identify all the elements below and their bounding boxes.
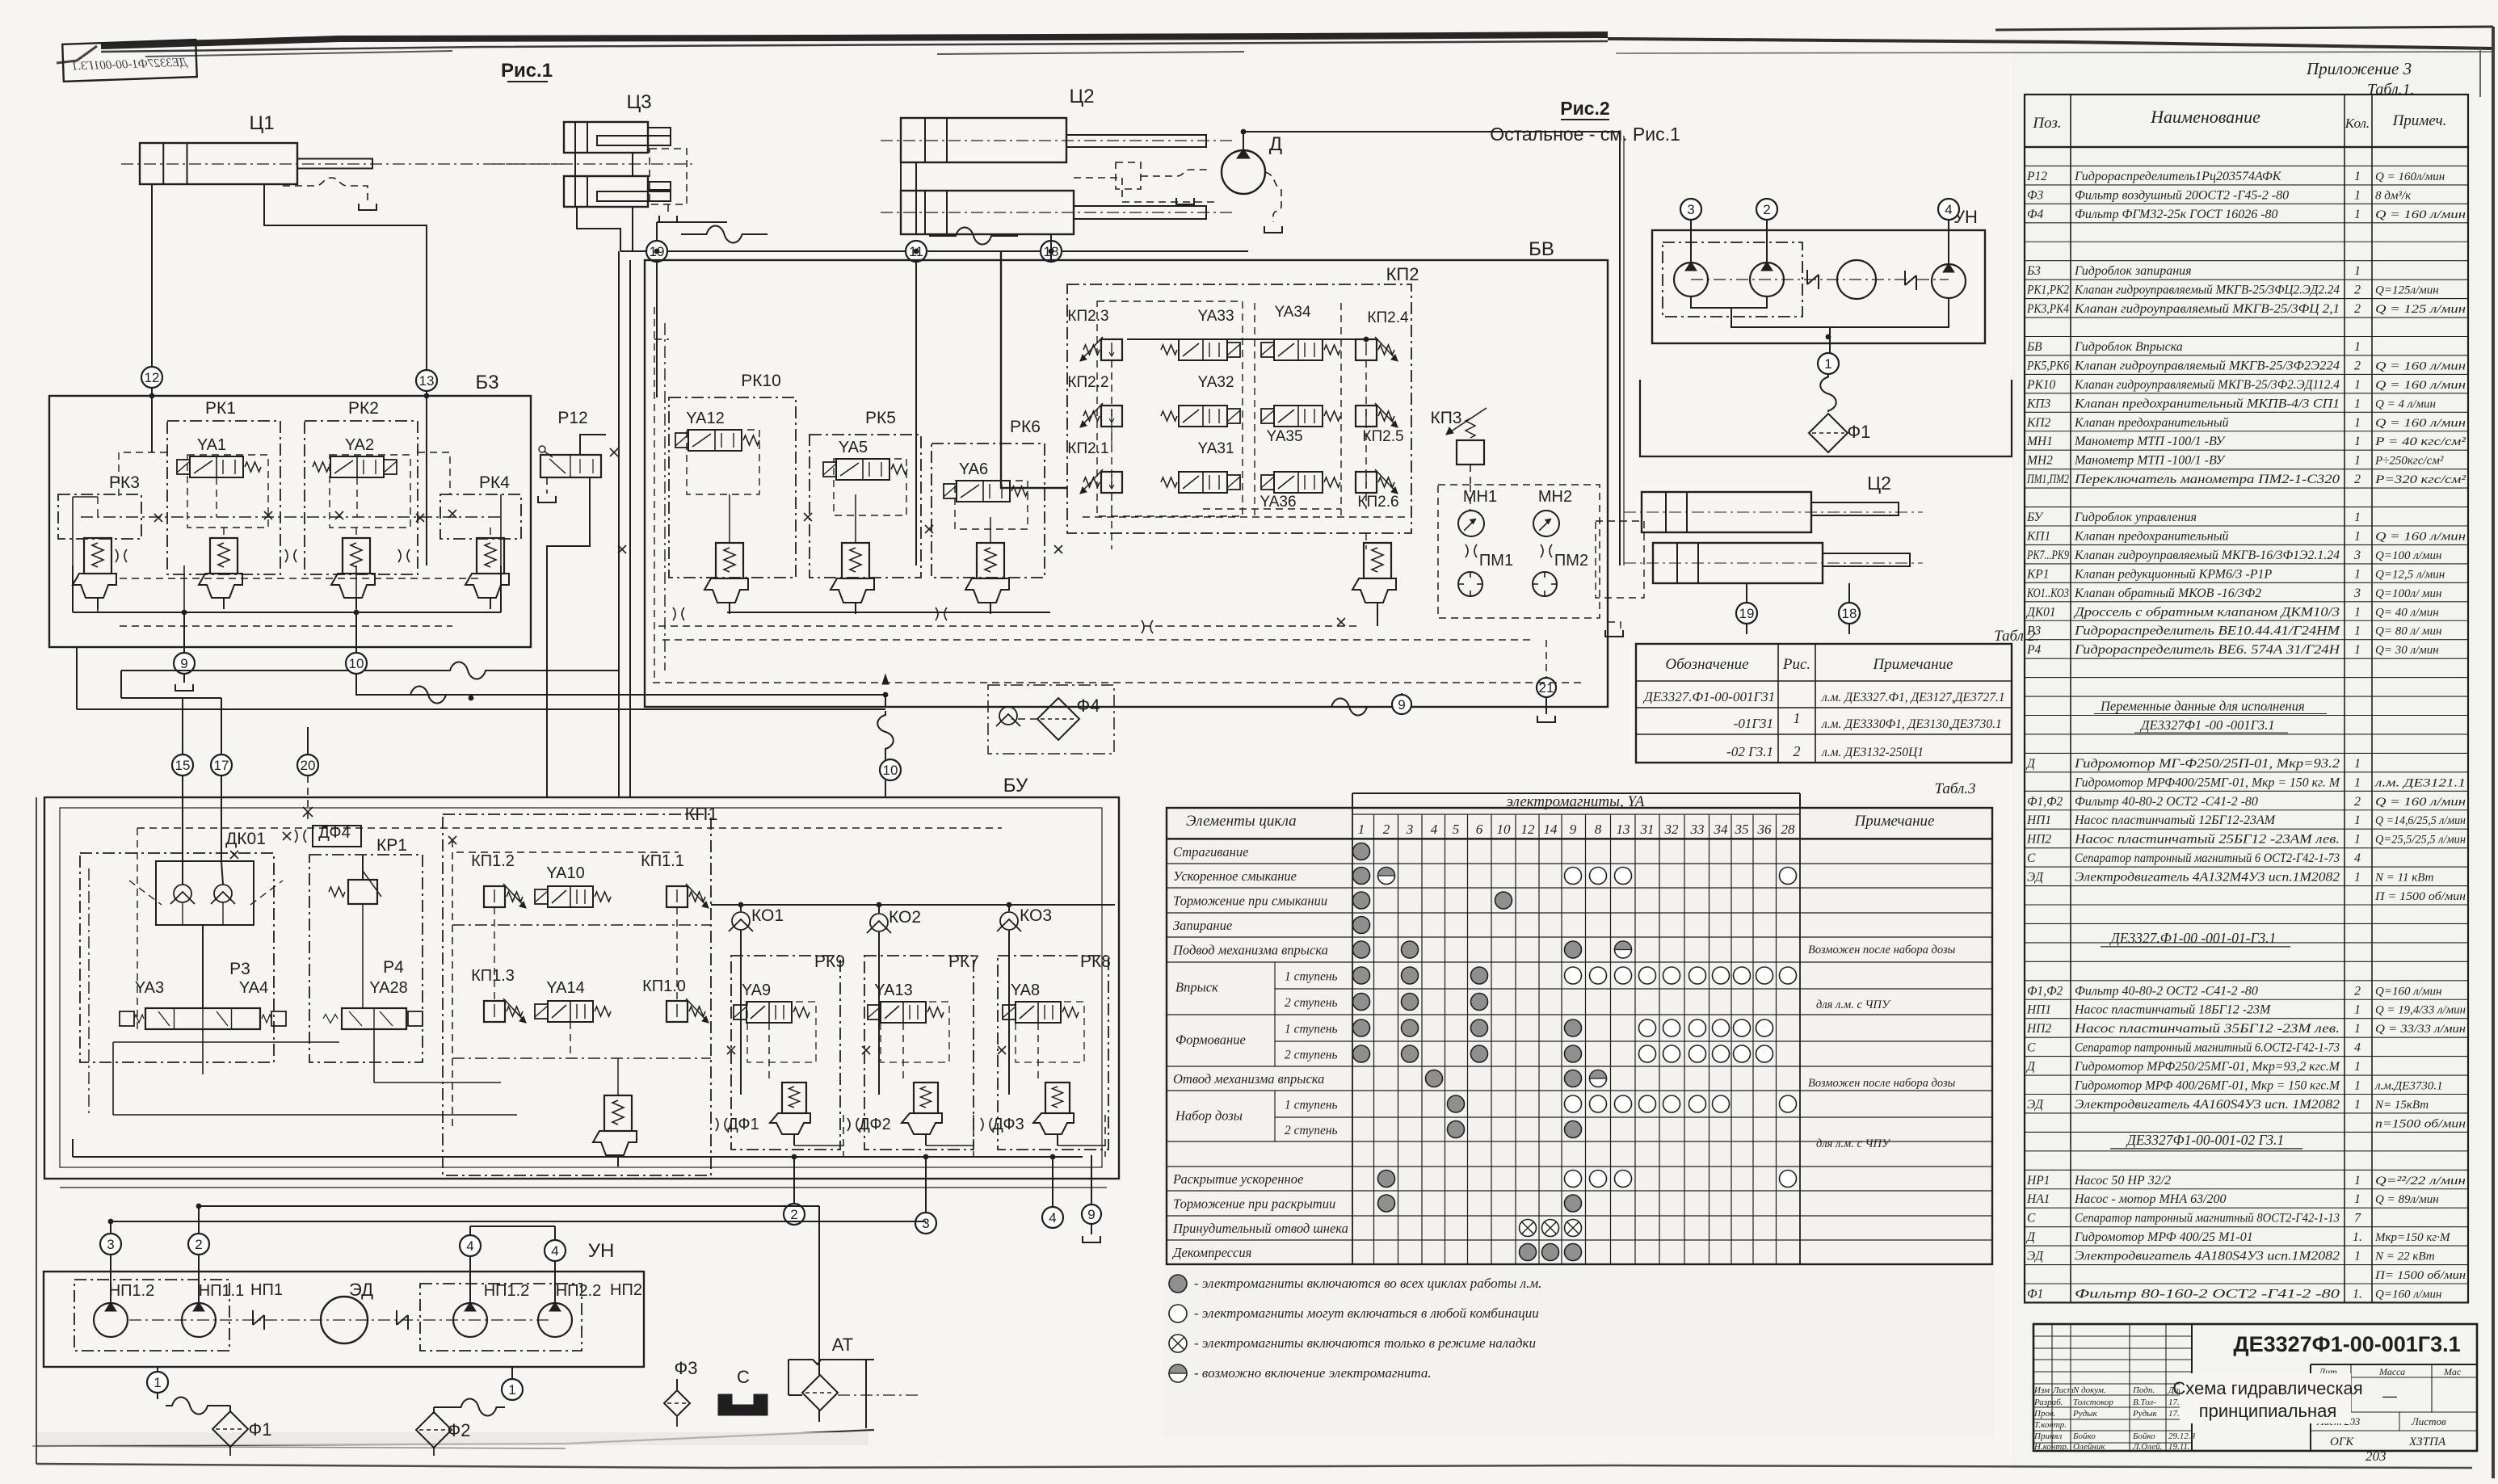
svg-text:1: 1 <box>1824 356 1831 372</box>
svg-text:Возможен после набора дозы: Возможен после набора дозы <box>1808 944 1956 956</box>
svg-text:4: 4 <box>551 1243 558 1259</box>
svg-text:YA36: YA36 <box>1260 494 1296 511</box>
svg-text:ДФ2: ДФ2 <box>859 1116 890 1133</box>
svg-text:13: 13 <box>1617 822 1630 837</box>
svg-text:Листов: Листов <box>2411 1415 2446 1427</box>
svg-text:YA1: YA1 <box>197 436 226 454</box>
svg-text:2: 2 <box>2354 284 2361 297</box>
svg-text:ХЗТПА: ХЗТПА <box>2408 1436 2446 1448</box>
svg-text:2: 2 <box>2354 359 2361 372</box>
svg-text:Клапан обратный МКОВ -16/3Ф2: Клапан обратный МКОВ -16/3Ф2 <box>2074 586 2261 600</box>
svg-text:1: 1 <box>2354 813 2361 827</box>
svg-text:ОГК: ОГК <box>2330 1436 2354 1448</box>
svg-text:Мкр=150 кг·М: Мкр=150 кг·М <box>2374 1231 2451 1244</box>
svg-text:Принудительный отвод шнека: Принудительный отвод шнека <box>1172 1221 1348 1236</box>
svg-text:ДФ3: ДФ3 <box>992 1116 1024 1133</box>
svg-text:РК5,РК6: РК5,РК6 <box>2026 359 2069 372</box>
svg-text:YA31: YA31 <box>1197 440 1234 457</box>
svg-text:л.м. ДЕ3132-250Ц1: л.м. ДЕ3132-250Ц1 <box>1821 746 1924 759</box>
svg-text:1: 1 <box>2354 776 2361 789</box>
svg-text:2: 2 <box>1383 822 1390 837</box>
svg-text:Q = 160 л/мин: Q = 160 л/мин <box>2375 530 2466 543</box>
svg-text:36: 36 <box>1757 822 1773 837</box>
svg-text:Q = 4 л/мин: Q = 4 л/мин <box>2375 397 2436 410</box>
svg-text:YA28: YA28 <box>369 979 407 997</box>
svg-text:18: 18 <box>1842 606 1857 621</box>
svg-text:В.Тол-: В.Тол- <box>2133 1398 2156 1407</box>
svg-text:КО1: КО1 <box>751 906 784 925</box>
svg-text:Насос - мотор МНА 63/200: Насос - мотор МНА 63/200 <box>2074 1192 2227 1206</box>
svg-text:2 ступень: 2 ступень <box>1285 1124 1338 1137</box>
svg-text:Ф1: Ф1 <box>2027 1287 2043 1301</box>
svg-text:П= 1500 об/мин: П= 1500 об/мин <box>2374 1269 2466 1282</box>
svg-text:Р12: Р12 <box>557 409 587 427</box>
svg-text:- электромагниты включаются: - электромагниты включаются во всех цикл… <box>1194 1276 1541 1291</box>
svg-text:Насос 50 НР 32/2: Насос 50 НР 32/2 <box>2074 1174 2171 1188</box>
svg-text:ДЕ3327.Ф1-00-001Г31: ДЕ3327.Ф1-00-001Г31 <box>1642 689 1775 704</box>
svg-text:203: 203 <box>2366 1448 2387 1464</box>
svg-text:- электромагниты включаются: - электромагниты включаются только в реж… <box>1194 1335 1536 1351</box>
svg-text:Q = 89л/мин: Q = 89л/мин <box>2375 1193 2439 1206</box>
svg-text:КО2: КО2 <box>889 908 921 927</box>
svg-text:Q = 19,4/33 л/мин: Q = 19,4/33 л/мин <box>2375 1004 2466 1017</box>
svg-text:Фильтр ФГМ32-25к ГОСТ 16026 -8: Фильтр ФГМ32-25к ГОСТ 16026 -80 <box>2075 208 2278 221</box>
svg-text:Переключатель манометра ПМ2-: Переключатель манометра ПМ2-1-С320 <box>2074 473 2340 486</box>
svg-text:Мас: Мас <box>2443 1366 2462 1377</box>
svg-text:Ф1,Ф2: Ф1,Ф2 <box>2027 795 2063 809</box>
svg-text:МН1: МН1 <box>2026 435 2053 448</box>
svg-text:1: 1 <box>2354 757 2361 771</box>
svg-text:12: 12 <box>1521 822 1536 837</box>
svg-text:Q = 33/33 л/мин: Q = 33/33 л/мин <box>2375 1023 2466 1036</box>
svg-text:ЭД: ЭД <box>2027 1250 2044 1263</box>
svg-text:С: С <box>2027 851 2036 865</box>
svg-text:1: 1 <box>2354 529 2361 543</box>
svg-text:7: 7 <box>2354 1212 2361 1225</box>
svg-text:Фильтр 40-80-2 ОСТ2 -С41-2 -8: Фильтр 40-80-2 ОСТ2 -С41-2 -80 <box>2075 795 2258 809</box>
svg-text:КП1: КП1 <box>2026 529 2050 543</box>
svg-text:Ф4: Ф4 <box>2027 208 2043 221</box>
svg-text:Д: Д <box>2025 1060 2036 1074</box>
svg-text:НП2: НП2 <box>2026 1022 2051 1036</box>
svg-text:Q=125л/мин: Q=125л/мин <box>2375 284 2439 297</box>
svg-text:Наименование: Наименование <box>2150 107 2260 127</box>
svg-text:1: 1 <box>2354 871 2361 885</box>
svg-text:Р4: Р4 <box>2026 643 2041 657</box>
svg-text:НП1: НП1 <box>250 1281 283 1299</box>
svg-text:1: 1 <box>2354 1174 2361 1188</box>
svg-text:КП1.3: КП1.3 <box>471 967 515 985</box>
svg-text:YA33: YA33 <box>1197 308 1234 325</box>
svg-text:9: 9 <box>1398 697 1405 713</box>
svg-text:Н.контр.: Н.контр. <box>2033 1442 2069 1452</box>
svg-text:YA3: YA3 <box>135 979 164 997</box>
svg-text:N= 15кВт: N= 15кВт <box>2374 1099 2429 1112</box>
svg-text:Гидрораспределитель1Рц203574АФ: Гидрораспределитель1Рц203574АФК <box>2074 170 2282 183</box>
svg-text:Q =14,6/25,5 л/мин: Q =14,6/25,5 л/мин <box>2375 814 2466 827</box>
svg-text:1: 1 <box>2354 567 2361 581</box>
svg-text:Переменные данные для испо: Переменные данные для исполнения <box>2100 699 2305 714</box>
svg-text:Насос пластинчатый 18БГ12 -: Насос пластинчатый 18БГ12 -23М <box>2074 1003 2272 1017</box>
svg-text:Гидроблок запирания: Гидроблок запирания <box>2074 264 2192 278</box>
svg-text:Декомпрессия: Декомпрессия <box>1171 1245 1251 1260</box>
svg-text:Толстокор: Толстокор <box>2073 1398 2113 1407</box>
svg-text:КО1..КО3: КО1..КО3 <box>2026 586 2069 600</box>
svg-text:Фильтр 40-80-2 ОСТ2 -С41-2: Фильтр 40-80-2 ОСТ2 -С41-2 -80 <box>2075 984 2258 998</box>
svg-text:Р3: Р3 <box>2026 624 2041 638</box>
svg-text:электромагниты, YA: электромагниты, YA <box>1507 793 1645 810</box>
svg-text:4: 4 <box>1431 822 1438 837</box>
svg-text:1: 1 <box>2354 416 2361 430</box>
svg-text:Клапан гидроуправляемый МКГВ-2: Клапан гидроуправляемый МКГВ-25/3Ф2.ЭД11… <box>2074 378 2340 392</box>
svg-text:Ускоренное смыкание: Ускоренное смыкание <box>1173 868 1297 884</box>
svg-text:КП2.1: КП2.1 <box>1067 440 1108 457</box>
svg-text:Клапан предохранительный: Клапан предохранительный <box>2074 529 2229 543</box>
svg-text:Гидроблок Впрыска: Гидроблок Впрыска <box>2074 340 2183 354</box>
svg-text:Л.Олей.: Л.Олей. <box>2132 1442 2162 1452</box>
svg-text:принципиальная: принципиальная <box>2199 1401 2337 1421</box>
svg-text:1: 1 <box>2354 511 2361 524</box>
svg-text:КП2: КП2 <box>1386 264 1419 284</box>
svg-text:Ф2: Ф2 <box>448 1420 471 1440</box>
svg-text:Клапан предохранительный МКПВ: Клапан предохранительный МКПВ-4/3 СП1 <box>2074 397 2340 410</box>
svg-text:РК1: РК1 <box>205 399 236 418</box>
svg-text:Ф3: Ф3 <box>675 1358 698 1378</box>
svg-text:-01Г31: -01Г31 <box>1734 716 1773 731</box>
svg-text:Q = 160 л/мин: Q = 160 л/мин <box>2375 208 2466 221</box>
svg-text:- возможно включение: - возможно включение электромагнита. <box>1194 1365 1432 1381</box>
svg-text:P = 40 кгс/см²: P = 40 кгс/см² <box>2374 435 2466 448</box>
svg-text:Ц1: Ц1 <box>249 112 274 134</box>
svg-text:Примеч.: Примеч. <box>2392 112 2447 129</box>
svg-text:Клапан гидроуправляемый МКГВ-2: Клапан гидроуправляемый МКГВ-25/3ФЦ 2,1 <box>2074 302 2340 316</box>
svg-text:Кол.: Кол. <box>2345 116 2370 131</box>
svg-text:ДЕ3327Ф1-00-001-02 Г3.1: ДЕ3327Ф1-00-001-02 Г3.1 <box>2126 1132 2285 1148</box>
svg-text:Ц3: Ц3 <box>626 91 651 113</box>
svg-text:YA12: YA12 <box>686 410 724 427</box>
svg-text:Отвод механизма впрыска: Отвод механизма впрыска <box>1173 1071 1324 1087</box>
svg-text:34: 34 <box>1714 822 1729 837</box>
svg-text:9: 9 <box>1570 822 1577 837</box>
svg-text:Б3: Б3 <box>475 372 498 393</box>
svg-text:Q = 160л/мин: Q = 160л/мин <box>2375 170 2445 183</box>
svg-text:1: 1 <box>2354 605 2361 619</box>
svg-text:YA9: YA9 <box>742 982 771 999</box>
svg-text:Q = 160 л/мин: Q = 160 л/мин <box>2375 796 2466 809</box>
svg-text:Р12: Р12 <box>2026 170 2047 183</box>
svg-text:15: 15 <box>175 758 191 773</box>
svg-text:- электромагниты могут вкл: - электромагниты могут включаться в любо… <box>1194 1305 1539 1321</box>
svg-text:Сепаратор патронный магнитный: Сепаратор патронный магнитный 8ОСТ2-Г42-… <box>2075 1212 2340 1225</box>
svg-text:Схема гидравлическая: Схема гидравлическая <box>2172 1378 2362 1398</box>
svg-text:YA14: YA14 <box>546 979 584 997</box>
svg-text:НП1.2: НП1.2 <box>484 1282 530 1300</box>
svg-text:КР1: КР1 <box>376 836 407 855</box>
svg-text:YA10: YA10 <box>546 864 584 882</box>
svg-text:Впрыск: Впрыск <box>1175 980 1218 995</box>
svg-text:АТ: АТ <box>832 1335 853 1355</box>
svg-text:Ф1,Ф2: Ф1,Ф2 <box>2027 984 2063 998</box>
svg-text:Q= 80 л/ мин: Q= 80 л/ мин <box>2375 625 2441 638</box>
svg-text:С: С <box>2027 1212 2036 1225</box>
svg-text:УН: УН <box>588 1240 615 1262</box>
svg-text:Гидромотор МРФ 400/26МГ-01, М: Гидромотор МРФ 400/26МГ-01, Мкр = 150 кг… <box>2074 1079 2341 1093</box>
svg-text:10: 10 <box>883 763 898 778</box>
svg-text:2: 2 <box>2354 302 2361 316</box>
svg-text:БВ: БВ <box>1529 238 1554 260</box>
svg-text:Р3: Р3 <box>229 960 250 978</box>
svg-text:1: 1 <box>2354 1022 2361 1036</box>
svg-text:8 дм³/к: 8 дм³/к <box>2375 189 2412 202</box>
svg-text:БУ: БУ <box>1003 775 1028 797</box>
svg-text:Насос пластинчатый 35БГ12 -: Насос пластинчатый 35БГ12 -23М лев. <box>2074 1022 2340 1036</box>
svg-text:л.м. ДЕ3121.1: л.м. ДЕ3121.1 <box>2374 776 2466 789</box>
svg-text:Фильтр воздушный 20ОСТ2 -Г45-2: Фильтр воздушный 20ОСТ2 -Г45-2 -80 <box>2075 188 2289 202</box>
svg-text:Масса: Масса <box>2378 1366 2405 1377</box>
svg-text:КП1.0: КП1.0 <box>642 977 686 995</box>
svg-text:1: 1 <box>2354 454 2361 468</box>
svg-text:КП3: КП3 <box>1430 409 1461 427</box>
svg-text:3: 3 <box>107 1237 114 1252</box>
svg-text:Q = 125 л/мин: Q = 125 л/мин <box>2375 303 2466 316</box>
svg-text:Q= 40 л/мин: Q= 40 л/мин <box>2375 606 2439 619</box>
svg-text:32: 32 <box>1664 822 1680 837</box>
svg-text:1: 1 <box>2354 188 2361 202</box>
svg-text:Д: Д <box>1269 133 1282 155</box>
svg-text:НП2.2: НП2.2 <box>556 1282 602 1300</box>
svg-text:Манометр МТП -100/1 -ВУ: Манометр МТП -100/1 -ВУ <box>2074 435 2226 448</box>
svg-text:4: 4 <box>466 1238 473 1254</box>
svg-text:9: 9 <box>180 656 187 671</box>
svg-text:С: С <box>2027 1041 2036 1055</box>
svg-text:19: 19 <box>1739 606 1755 621</box>
svg-text:YA6: YA6 <box>959 460 988 478</box>
svg-text:Q=²²/22 л/мин: Q=²²/22 л/мин <box>2375 1175 2466 1188</box>
svg-text:л.м.ДЕ3730.1: л.м.ДЕ3730.1 <box>2374 1080 2443 1093</box>
svg-text:29.12.8: 29.12.8 <box>2168 1431 2196 1441</box>
svg-text:Ф1: Ф1 <box>1848 422 1871 442</box>
svg-text:РК7...РК9: РК7...РК9 <box>2026 549 2069 562</box>
svg-text:N докум.: N докум. <box>2072 1385 2106 1395</box>
svg-text:2 ступень: 2 ступень <box>1285 1049 1338 1062</box>
svg-text:Гидрораспределитель ВЕ6. 574А: Гидрораспределитель ВЕ6. 574А 31/Г24Н <box>2074 643 2341 657</box>
svg-text:РК2: РК2 <box>348 399 379 418</box>
svg-text:1: 1 <box>2354 624 2361 638</box>
svg-text:Сепаратор патронный магнитный: Сепаратор патронный магнитный 6 ОСТ2-Г42… <box>2075 851 2340 865</box>
svg-text:28: 28 <box>1781 822 1796 837</box>
svg-text:1 ступень: 1 ступень <box>1285 970 1338 984</box>
svg-text:1: 1 <box>153 1375 161 1390</box>
svg-text:1: 1 <box>2354 264 2361 278</box>
svg-text:P÷250кгс/см²: P÷250кгс/см² <box>2374 455 2444 468</box>
svg-text:YA35: YA35 <box>1266 428 1302 445</box>
svg-text:Р4: Р4 <box>383 958 404 977</box>
svg-text:Обозначение: Обозначение <box>1665 656 1748 673</box>
svg-text:Гидромотор МРФ 400/25 М1-01: Гидромотор МРФ 400/25 М1-01 <box>2074 1230 2253 1244</box>
svg-text:НП2: НП2 <box>2026 833 2051 847</box>
svg-text:Клапан предохранительный: Клапан предохранительный <box>2074 416 2229 430</box>
svg-text:Манометр МТП -100/1 -ВУ: Манометр МТП -100/1 -ВУ <box>2074 454 2226 468</box>
svg-text:Сепаратор патронный магнитный: Сепаратор патронный магнитный 6.ОСТ2-Г42… <box>2075 1041 2340 1055</box>
svg-text:1 ступень: 1 ступень <box>1285 1023 1338 1036</box>
svg-text:2: 2 <box>2354 984 2361 998</box>
svg-text:1.: 1. <box>2353 1230 2362 1244</box>
svg-text:Насос пластинчатый 12БГ12-23А: Насос пластинчатый 12БГ12-23АМ <box>2074 813 2277 827</box>
svg-text:Гидромотор МРФ400/25МГ-01, Мкр: Гидромотор МРФ400/25МГ-01, Мкр = 150 кг.… <box>2074 776 2341 789</box>
svg-text:YA5: YA5 <box>839 439 868 456</box>
svg-text:1: 1 <box>2354 397 2361 410</box>
svg-text:Q=100л/ мин: Q=100л/ мин <box>2375 587 2441 600</box>
svg-text:КП2.5: КП2.5 <box>1362 428 1403 445</box>
svg-text:ПМ1,ПМ2: ПМ1,ПМ2 <box>2026 473 2069 486</box>
svg-text:НП1: НП1 <box>2026 813 2051 827</box>
svg-text:Торможение при смыкании: Торможение при смыкании <box>1173 893 1327 909</box>
svg-text:НП1.1: НП1.1 <box>199 1282 245 1300</box>
svg-text:РК10: РК10 <box>741 372 781 390</box>
svg-text:31: 31 <box>1640 822 1655 837</box>
svg-text:Запирание: Запирание <box>1173 918 1232 933</box>
svg-text:1: 1 <box>2354 1079 2361 1093</box>
svg-text:1: 1 <box>2354 208 2361 221</box>
svg-text:Примечание: Примечание <box>1873 656 1953 673</box>
svg-text:3: 3 <box>1687 202 1694 217</box>
svg-text:КП1.2: КП1.2 <box>471 852 515 870</box>
svg-text:Клапан гидроуправляемый МКГВ-1: Клапан гидроуправляемый МКГВ-16/3Ф1Э2.1.… <box>2074 549 2340 562</box>
svg-text:Q=160 л/мин: Q=160 л/мин <box>2375 985 2441 998</box>
svg-text:КП2.3: КП2.3 <box>1067 308 1108 325</box>
svg-text:Разраб.: Разраб. <box>2033 1398 2063 1407</box>
svg-text:YA32: YA32 <box>1197 374 1234 391</box>
svg-text:4: 4 <box>2354 1041 2361 1055</box>
svg-text:12: 12 <box>145 370 160 385</box>
svg-text:Раскрытие ускоренное: Раскрытие ускоренное <box>1172 1171 1303 1187</box>
svg-text:КП3: КП3 <box>2026 397 2050 410</box>
svg-text:2: 2 <box>2354 795 2361 809</box>
svg-text:Б3: Б3 <box>2026 264 2041 278</box>
svg-text:Ц2: Ц2 <box>1867 473 1891 494</box>
svg-text:п=1500 об/мин: п=1500 об/мин <box>2375 1117 2466 1130</box>
svg-text:ПМ2: ПМ2 <box>1554 552 1588 570</box>
svg-text:1: 1 <box>1358 822 1365 837</box>
svg-text:КП2.4: КП2.4 <box>1367 309 1409 326</box>
svg-text:КО3: КО3 <box>1020 906 1052 925</box>
svg-text:ЭД: ЭД <box>2027 871 2044 885</box>
svg-text:1: 1 <box>2354 833 2361 847</box>
svg-text:1: 1 <box>2354 435 2361 448</box>
svg-text:МН2: МН2 <box>1538 488 1572 506</box>
svg-text:Гидромотор МРФ250/25МГ-01, Мк: Гидромотор МРФ250/25МГ-01, Мкр=93,2 кгс.… <box>2074 1060 2341 1074</box>
svg-text:НР1: НР1 <box>2026 1174 2050 1188</box>
svg-text:л.м. ДЕ3330Ф1, ДЕ3130,ДЕ3730.1: л.м. ДЕ3330Ф1, ДЕ3130,ДЕ3730.1 <box>1821 717 2002 731</box>
svg-text:НП2: НП2 <box>610 1281 642 1299</box>
svg-text:Фильтр 80-160-2 ОСТ2 -Г41-: Фильтр 80-160-2 ОСТ2 -Г41-2 -80 <box>2075 1287 2340 1301</box>
svg-text:Подп.: Подп. <box>2132 1385 2155 1395</box>
svg-text:Гидрораспределитель ВЕ10.44.4: Гидрораспределитель ВЕ10.44.41/Г24НМ <box>2074 624 2341 638</box>
svg-text:P=320 кгс/см²: P=320 кгс/см² <box>2374 473 2466 486</box>
svg-text:1: 1 <box>2354 170 2361 183</box>
svg-text:Табл.1.: Табл.1. <box>2367 81 2415 99</box>
svg-text:N = 22 кВт: N = 22 кВт <box>2374 1251 2435 1263</box>
svg-text:ДЕ3327Ф1 -00 -001Г3.1: ДЕ3327Ф1 -00 -001Г3.1 <box>2139 717 2275 733</box>
svg-text:1: 1 <box>1794 710 1801 726</box>
svg-text:П = 1500 об/мин: П = 1500 об/мин <box>2374 890 2466 903</box>
svg-text:N = 11 кВт: N = 11 кВт <box>2374 872 2434 885</box>
svg-text:Остальное - см. Рис.1: Остальное - см. Рис.1 <box>1490 124 1680 145</box>
svg-text:Подвод механизма впрыска: Подвод механизма впрыска <box>1172 943 1328 958</box>
svg-text:Бойко: Бойко <box>2072 1431 2096 1441</box>
svg-text:ДК01: ДК01 <box>2025 605 2056 619</box>
svg-text:Приложение 3: Приложение 3 <box>2306 59 2412 78</box>
svg-text:Электродвигатель 4А180S4У3: Электродвигатель 4А180S4У3 исп.1М2082 <box>2075 1250 2340 1263</box>
svg-text:9: 9 <box>1087 1207 1095 1222</box>
svg-text:2: 2 <box>2354 473 2361 486</box>
svg-text:Дроссель с обратным клапаном: Дроссель с обратным клапаном ДКМ10/3 <box>2073 605 2340 619</box>
svg-text:Клапан редукционный КРМ6/3: Клапан редукционный КРМ6/3 -Р1Р <box>2074 567 2272 581</box>
svg-text:3: 3 <box>2353 586 2361 600</box>
svg-text:НП1: НП1 <box>2026 1003 2051 1017</box>
svg-text:1: 1 <box>2354 1060 2361 1074</box>
svg-text:8: 8 <box>1595 822 1602 837</box>
svg-text:—: — <box>2382 1388 2397 1404</box>
svg-text:3: 3 <box>1406 822 1414 837</box>
svg-text:1: 1 <box>2354 1250 2361 1263</box>
svg-text:Q=100 л/мин: Q=100 л/мин <box>2375 549 2441 562</box>
svg-text:РК10: РК10 <box>2026 378 2056 392</box>
svg-text:БВ: БВ <box>2026 340 2042 354</box>
svg-text:Примечание: Примечание <box>1854 813 1935 830</box>
svg-text:Элементы цикла: Элементы цикла <box>1186 813 1297 830</box>
svg-text:РК1,РК2: РК1,РК2 <box>2026 284 2069 297</box>
svg-text:Д: Д <box>2025 757 2036 771</box>
svg-text:17: 17 <box>214 758 229 773</box>
svg-text:Т.контр.: Т.контр. <box>2034 1420 2067 1430</box>
svg-text:10: 10 <box>1497 822 1512 837</box>
svg-text:Изм: Изм <box>2033 1385 2050 1395</box>
svg-text:РК5: РК5 <box>865 409 896 427</box>
svg-text:13: 13 <box>419 373 435 389</box>
svg-text:Насос пластинчатый 25БГ12 -23: Насос пластинчатый 25БГ12 -23АМ лев. <box>2074 833 2340 847</box>
svg-text:Рудык: Рудык <box>2072 1409 2098 1419</box>
svg-text:Страгивание: Страгивание <box>1173 844 1248 860</box>
svg-text:3: 3 <box>922 1216 929 1231</box>
svg-text:YA4: YA4 <box>239 979 268 997</box>
svg-text:Бойко: Бойко <box>2132 1431 2155 1441</box>
svg-text:Q = 160 л/мин: Q = 160 л/мин <box>2375 417 2466 430</box>
svg-text:ДЕ3327Ф1-00-001Г3.1: ДЕ3327Ф1-00-001Г3.1 <box>2233 1332 2460 1356</box>
svg-text:1: 1 <box>2354 1003 2361 1017</box>
svg-text:КР1: КР1 <box>2026 567 2050 581</box>
svg-text:YA13: YA13 <box>874 982 912 999</box>
svg-text:2: 2 <box>195 1237 202 1252</box>
svg-text:2 ступень: 2 ступень <box>1285 996 1338 1010</box>
svg-text:Q=160 л/мин: Q=160 л/мин <box>2375 1288 2441 1301</box>
svg-text:10: 10 <box>349 656 364 671</box>
svg-text:YA34: YA34 <box>1274 304 1311 321</box>
svg-text:Рудык: Рудык <box>2132 1409 2158 1419</box>
svg-text:Рис.2: Рис.2 <box>1560 98 1609 119</box>
svg-text:Гидромотор МГ-Ф250/25П-01, Мкр: Гидромотор МГ-Ф250/25П-01, Мкр=93.2 <box>2074 757 2340 771</box>
svg-text:МН2: МН2 <box>2026 454 2053 468</box>
svg-text:Рис.1: Рис.1 <box>501 60 553 82</box>
svg-text:Рис.: Рис. <box>1782 656 1810 673</box>
svg-text:Набор дозы: Набор дозы <box>1175 1108 1243 1124</box>
svg-text:YA8: YA8 <box>1011 982 1040 999</box>
svg-text:1: 1 <box>2354 340 2361 354</box>
svg-text:2: 2 <box>1794 743 1801 759</box>
svg-text:1.: 1. <box>2353 1287 2362 1301</box>
svg-text:для л.м. с ЧПУ: для л.м. с ЧПУ <box>1816 1137 1891 1150</box>
svg-text:Q= 30 л/мин: Q= 30 л/мин <box>2375 644 2439 657</box>
